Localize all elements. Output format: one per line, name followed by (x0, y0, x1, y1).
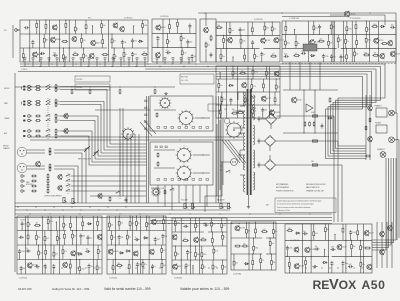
wire (245, 235, 247, 238)
contact terminal c2 (160, 146, 162, 148)
junction (216, 267, 217, 268)
svg-text:220k: 220k (203, 254, 207, 256)
resistor R64 (371, 24, 378, 28)
wire (101, 29, 103, 34)
wire (299, 62, 301, 90)
svg-text:220k: 220k (242, 41, 246, 43)
svg-text:BC107: BC107 (267, 98, 272, 100)
row header wire (18, 71, 216, 73)
resistor R79 (369, 117, 371, 122)
selector wafer S1b (178, 110, 195, 127)
wire (251, 22, 253, 26)
resistor R105 (49, 147, 51, 152)
board outline 1.078.520 (152, 19, 196, 62)
transformer primary winding 1 (244, 92, 245, 106)
junction (252, 65, 253, 66)
junction (42, 259, 43, 260)
junction (111, 33, 112, 34)
junction (237, 78, 238, 79)
wire (211, 218, 213, 221)
rail wire (20, 47, 107, 49)
jack J13 (21, 190, 25, 192)
svg-text:330: 330 (266, 28, 269, 30)
wire (181, 56, 183, 62)
capacitor C22 (284, 54, 289, 58)
primary wire (240, 105, 245, 107)
wire (240, 45, 242, 49)
svg-text:1.078.510: 1.078.510 (124, 18, 132, 20)
transistor Q13 (261, 38, 271, 44)
svg-text:Valable pour séries nr. 110 –: Valable pour séries nr. 110 – 599 (180, 287, 229, 291)
switch S12 (66, 174, 71, 177)
wire (269, 155, 271, 160)
resistor R146 (111, 234, 116, 241)
capacitor C43 (88, 264, 94, 269)
contact terminal b3 (171, 179, 174, 181)
svg-text:DIN: DIN (266, 205, 269, 207)
resistor R144 (146, 221, 150, 228)
switch bank link (47, 98, 49, 139)
speaker chain wire (369, 95, 371, 160)
resistor R120 (34, 223, 41, 227)
resistor R88 (157, 161, 159, 166)
transistor Q7 (33, 51, 43, 57)
capacitor C55 (349, 230, 356, 235)
board pin (188, 58, 190, 60)
transistor Q11 (204, 27, 209, 33)
wire (289, 62, 291, 90)
wire (351, 250, 353, 257)
svg-text:50u: 50u (59, 238, 62, 240)
speaker 1 jack (389, 110, 395, 116)
wire (252, 66, 254, 69)
rail wire (216, 48, 260, 50)
wire (142, 20, 144, 22)
junction (182, 223, 183, 224)
svg-text:25u: 25u (144, 264, 147, 266)
resistor R54 (219, 109, 221, 116)
junction (135, 267, 136, 268)
wire (212, 270, 214, 274)
column wire (301, 224, 303, 273)
junction (59, 47, 60, 48)
ground (247, 205, 250, 208)
svg-text:NETZSICHERUNG: NETZSICHERUNG (276, 187, 290, 189)
capacitor C25 (330, 54, 336, 59)
stereo pair bracket 2 (21, 102, 23, 105)
transistor Q3 (120, 26, 125, 32)
capacitor C23 (301, 51, 306, 55)
svg-text:220p: 220p (254, 72, 258, 74)
transistor Q31 (58, 174, 62, 180)
transformer T1 core (247, 89, 252, 195)
svg-text:25u: 25u (223, 99, 226, 101)
wire (163, 225, 165, 230)
column wire (59, 216, 61, 274)
resistor R19 (123, 51, 127, 58)
wire (201, 258, 203, 260)
junction (71, 206, 72, 207)
resistor R87 (157, 152, 159, 157)
capacitor C50 (183, 225, 188, 228)
resistor R101 (35, 130, 41, 132)
resistor R29 (181, 49, 186, 56)
svg-text:0.1: 0.1 (24, 223, 26, 225)
wire (81, 34, 83, 37)
junction (159, 267, 160, 268)
diode D8 (143, 237, 148, 239)
resistor R181 (287, 228, 294, 232)
wire (27, 231, 29, 234)
rail wire (231, 253, 262, 255)
resistor R24 (154, 89, 156, 94)
legend box 3 (180, 74, 214, 84)
transistor Q16 (242, 82, 247, 88)
board outline (285, 224, 372, 273)
junction (147, 223, 148, 224)
junction (251, 78, 252, 79)
board outline (107, 216, 166, 274)
resistor R1 (36, 22, 38, 29)
svg-text:10k: 10k (207, 45, 210, 47)
junction (220, 72, 221, 73)
transistor Q30 (36, 161, 41, 167)
junction (45, 244, 46, 245)
junction (231, 223, 232, 224)
junction (26, 209, 27, 210)
wire (284, 46, 286, 48)
junction (21, 267, 22, 268)
transistor Q37 (63, 262, 68, 268)
column wire (114, 216, 116, 274)
column wire (25, 216, 27, 274)
top supply rail (198, 12, 396, 14)
svg-text:BC108: BC108 (157, 221, 162, 223)
wire (274, 103, 276, 105)
board divider wire (332, 21, 334, 62)
resistor R81 (365, 155, 371, 157)
junction (147, 63, 148, 64)
resistor R123 (70, 222, 72, 229)
switch S15 (66, 189, 71, 192)
column wire (93, 216, 95, 274)
column wire (247, 66, 249, 118)
feedback wire (372, 158, 389, 248)
rail wire (266, 253, 276, 255)
resistor R116 (47, 188, 49, 193)
junction (217, 223, 218, 224)
wire (62, 245, 64, 248)
svg-text:47k: 47k (315, 246, 318, 248)
switch S13 (66, 179, 71, 182)
regulator transistor triangle (306, 104, 313, 112)
wire (22, 48, 24, 52)
diode D12 (295, 232, 300, 234)
junction (179, 139, 180, 140)
svg-text:BC140: BC140 (297, 99, 302, 101)
wire (102, 34, 104, 38)
resistor R137 (69, 263, 71, 270)
wire (232, 77, 234, 80)
wire (254, 60, 256, 62)
wire (220, 49, 222, 53)
capacitor C41 (44, 264, 47, 269)
switch S4 (46, 100, 51, 103)
wire (71, 231, 73, 233)
resistor R73 (381, 43, 388, 45)
wire (118, 227, 120, 231)
resistor R104 (55, 133, 60, 138)
resistor R142 (129, 220, 134, 227)
junction (35, 206, 36, 207)
transistor Q38 (151, 219, 161, 225)
feedback wire (372, 158, 386, 250)
resistor R102 (55, 128, 60, 133)
column wire (189, 218, 191, 274)
junction (252, 253, 253, 254)
resistor R11 (102, 38, 104, 45)
wire (222, 260, 224, 264)
junction (378, 48, 379, 49)
junction (115, 259, 116, 260)
board pin (136, 58, 138, 60)
transformer secondary winding 4 (253, 172, 255, 190)
wire (162, 239, 164, 245)
board pin (120, 58, 122, 60)
output rail wire (376, 222, 378, 268)
wire (152, 269, 154, 274)
transformer primary winding 5 (243, 175, 245, 192)
pin stub wire (88, 59, 90, 66)
wire (261, 164, 265, 166)
jack J11 (21, 180, 25, 182)
signal wire (60, 102, 147, 151)
resistor R31 (210, 35, 212, 42)
svg-text:470: 470 (391, 25, 394, 27)
wire (261, 140, 265, 142)
junction (202, 117, 203, 118)
capacitor C53 (185, 263, 191, 268)
resistor R153 (161, 262, 166, 269)
resistor R129 (56, 235, 61, 242)
resistor R34 (251, 26, 253, 33)
capacitor C45 (134, 237, 139, 241)
wire (331, 59, 333, 62)
capacitor C1 (24, 26, 29, 29)
rail wire (152, 47, 196, 49)
transformer ground wire (248, 195, 250, 205)
svg-text:10k: 10k (235, 263, 238, 265)
capacitor C31 (125, 197, 128, 202)
junction (154, 86, 155, 87)
resistor R13 (22, 52, 24, 59)
wire (32, 45, 34, 48)
board pin (64, 58, 66, 60)
resistor R94 (55, 99, 60, 104)
svg-text:POWER CONSUMPTION: POWER CONSUMPTION (276, 190, 293, 192)
wire (354, 57, 356, 62)
resistor R170 (255, 228, 257, 235)
signal wire (54, 169, 74, 203)
wire (286, 251, 288, 257)
wire (16, 29, 20, 31)
resistor R154 (174, 220, 180, 227)
speaker 2 jack (380, 152, 386, 158)
svg-text:220k: 220k (325, 56, 329, 58)
wire (97, 245, 99, 248)
resistor R113 (31, 185, 37, 187)
svg-text:0.1: 0.1 (295, 53, 297, 55)
routing wire diagonal right (222, 140, 240, 163)
svg-text:10k: 10k (204, 266, 207, 268)
potentiometer P5 (220, 203, 224, 208)
left edge wire (14, 73, 16, 272)
svg-text:22k: 22k (38, 237, 41, 239)
column wire (342, 21, 344, 62)
svg-text:1n5: 1n5 (103, 25, 106, 27)
junction (253, 237, 254, 238)
junction (212, 231, 213, 232)
wire (240, 35, 242, 37)
jack J1 (15, 29, 19, 32)
speaker feed wire (216, 77, 366, 159)
resistor R51 (221, 96, 226, 103)
signal wire (60, 121, 147, 160)
wire (274, 92, 276, 96)
wire (211, 244, 213, 246)
resistor R171 (261, 229, 268, 233)
speaker feed wire (216, 67, 381, 149)
junction (252, 104, 253, 105)
capacitor C11 (166, 50, 171, 54)
junction (123, 63, 124, 64)
wafer wire (154, 109, 176, 111)
svg-text:2k2: 2k2 (57, 104, 60, 106)
svg-text:470: 470 (253, 86, 256, 88)
board pin (72, 58, 74, 60)
svg-text:22k: 22k (333, 56, 336, 58)
wire (195, 246, 197, 251)
svg-text:1.078.520: 1.078.520 (160, 16, 168, 18)
wire (174, 257, 176, 260)
capacitor C62 (348, 264, 353, 268)
wire (252, 76, 254, 80)
transformer secondary winding 2 (253, 125, 255, 145)
column wire (334, 21, 336, 62)
resistor R45 (252, 69, 258, 76)
svg-text:10k: 10k (194, 56, 197, 58)
resistor R190 (305, 259, 307, 266)
wire (53, 245, 55, 251)
transistor Q42 (172, 234, 177, 240)
svg-text:1n5: 1n5 (248, 231, 251, 233)
wire (166, 45, 168, 48)
switch S9 (46, 134, 51, 137)
potentiometer P2 (72, 198, 76, 203)
transistor Q54 (388, 225, 393, 231)
transistor Q6 (91, 40, 101, 46)
jack J7 (28, 119, 32, 122)
svg-text:100u: 100u (287, 43, 291, 45)
wire (313, 21, 315, 25)
junction (200, 267, 201, 268)
wire (324, 224, 326, 226)
selector drop wire (206, 185, 208, 207)
transistor Q output 2N3055 (344, 11, 355, 18)
wire (294, 29, 296, 34)
junction (175, 223, 176, 224)
svg-text:100u: 100u (373, 24, 377, 26)
board outline (172, 218, 227, 274)
svg-text:WECHSELSTROM 110/220V: WECHSELSTROM 110/220V (306, 184, 326, 186)
routing wire diagonal right (228, 140, 246, 163)
resistor R53 (274, 96, 276, 103)
jack J5 (28, 103, 32, 106)
switch S10 (85, 147, 90, 150)
wire (222, 232, 224, 234)
junction (226, 104, 227, 105)
board outline (17, 216, 102, 274)
junction (61, 267, 62, 268)
resistor R70 (345, 38, 349, 45)
wire (252, 266, 254, 270)
transformer primary winding 4 (244, 155, 245, 170)
svg-text:1.078.510: 1.078.510 (76, 79, 82, 81)
wire (174, 246, 176, 251)
wire (83, 48, 85, 53)
junction (49, 213, 50, 214)
svg-text:2k2: 2k2 (303, 231, 306, 233)
junction (29, 267, 30, 268)
wire (264, 31, 266, 35)
junction (334, 234, 335, 235)
capacitor C60 (330, 261, 333, 266)
svg-text:5u: 5u (135, 237, 137, 239)
junction (63, 215, 64, 216)
wafer wire (195, 117, 210, 119)
wire (342, 266, 344, 273)
svg-text:2N3055: 2N3055 (275, 112, 280, 114)
resistor R71 (356, 39, 358, 46)
column wire (248, 222, 250, 270)
contact terminal c1 (155, 146, 157, 148)
pin stub wire (128, 59, 130, 66)
wire (260, 254, 262, 257)
junction (119, 86, 120, 87)
junction (203, 223, 204, 224)
resistor R134 (53, 251, 58, 258)
junction (369, 12, 370, 13)
wire (44, 242, 46, 245)
svg-text:1k: 1k (26, 248, 28, 250)
resistor R48 (251, 83, 256, 90)
svg-text:1k: 1k (138, 223, 140, 225)
capacitor C20 (318, 25, 321, 30)
junction (189, 223, 190, 224)
wire (233, 254, 235, 260)
wire (394, 112, 397, 114)
rail wire (341, 47, 396, 49)
switch S3 (46, 88, 51, 91)
column wire (345, 224, 347, 273)
output rail wire (381, 222, 383, 268)
wire (45, 30, 47, 34)
column wire (362, 224, 364, 273)
column wire (226, 66, 228, 118)
wire (118, 216, 120, 220)
resistor R118 (164, 189, 166, 194)
resistor R30 (205, 42, 210, 49)
